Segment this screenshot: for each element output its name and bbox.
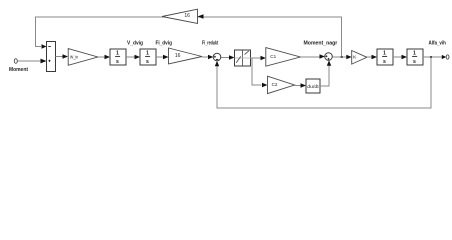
wire sum to W_in [56,54,69,58]
wire backlash out with branch node [251,56,266,60]
wire int4 to outport [423,55,446,59]
svg-text:Fi_redukt: Fi_redukt [202,41,218,47]
label Fi_dvig [156,41,173,47]
gain 1/i feedback triangle [162,9,198,23]
wire int3 to int4 [393,55,407,59]
wire int1 to int2 [126,55,140,59]
integrator 1/s block3 [377,49,393,65]
outport Alfa_vih [446,55,449,59]
wire sum1 to backlash [221,55,235,59]
sum junction S3 circle [325,53,333,61]
sum junction S2 circle [213,53,221,61]
svg-text:s: s [383,59,386,65]
wire C2 to derivative [295,83,307,87]
wire K to int3 [367,55,377,59]
svg-text:1: 1 [383,51,386,57]
label Moment_nagr [304,41,338,47]
svg-text:V_dvig: V_dvig [127,41,143,47]
gain W_in [68,49,98,66]
label Fi_redukt [202,41,218,47]
label Alfa_vih [429,41,446,47]
backlash block [235,50,251,66]
wire int2 to gain16 [156,55,169,59]
label V_dvig [127,41,143,47]
svg-text:s: s [146,59,149,65]
wire bottom feedback [215,56,432,108]
svg-text:C1: C1 [270,54,276,59]
svg-text:Alfa_vih: Alfa_vih [429,41,446,47]
wire branch down to C2 [252,58,268,87]
svg-text:Moment: Moment [9,67,28,73]
svg-text:1: 1 [146,51,149,57]
integrator 1/s block4 [407,49,423,65]
svg-text:1: 1 [116,51,119,57]
svg-text:du/dt: du/dt [307,84,319,89]
integrator 1/s block1 [110,49,126,65]
svg-text:Fi_dvig: Fi_dvig [156,41,173,47]
svg-text:Moment_nagr: Moment_nagr [304,41,338,47]
wire derivative up to sum2 [320,60,331,86]
wire into feedback gain [198,14,342,18]
svg-text:s: s [116,59,119,65]
gain K [352,51,367,65]
gain C2 [268,76,295,93]
inport Moment [14,59,17,64]
label Moment [9,67,28,73]
svg-text:C2: C2 [272,82,278,87]
wire sum2 to gain K with junction [332,55,351,59]
svg-text:1: 1 [413,51,416,57]
wire C1 to sum2 [300,54,324,58]
wire top feedback horizontal [36,17,342,57]
sum block S1 rectangle [47,42,56,72]
wire gain16 to sum1 [202,55,213,59]
derivative du/dt block [306,79,320,93]
wire top feedback arrow into sum [42,44,47,48]
gain 16 forward [169,48,203,64]
gain C1 [266,48,301,67]
svg-text:s: s [413,59,416,65]
svg-text:16: 16 [184,13,190,19]
wire Moment to sum [17,59,46,64]
svg-text:W_in: W_in [70,54,79,59]
svg-text:16: 16 [175,53,181,59]
wire W_in to integrator1 [98,55,110,59]
integrator 1/s block2 [140,49,156,65]
